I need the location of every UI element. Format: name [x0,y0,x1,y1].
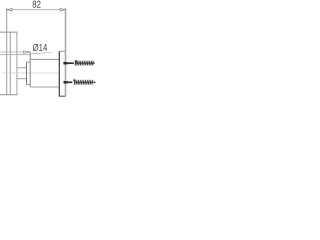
svg-text:Ø14: Ø14 [33,43,48,54]
svg-text:82: 82 [32,0,41,11]
